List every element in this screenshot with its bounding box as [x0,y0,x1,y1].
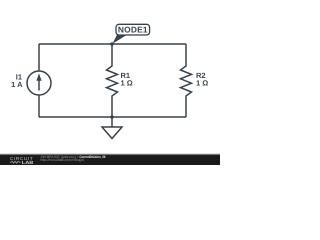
svg-text:1 Ω: 1 Ω [196,79,208,88]
svg-text:LAB: LAB [22,160,34,165]
svg-text:1 A: 1 A [11,80,23,89]
svg-text:NODE1: NODE1 [118,24,148,34]
svg-text:http://circuitlab.com/c6hqjt4: http://circuitlab.com/c6hqjt4 [41,158,85,162]
svg-text:1 Ω: 1 Ω [121,79,133,88]
